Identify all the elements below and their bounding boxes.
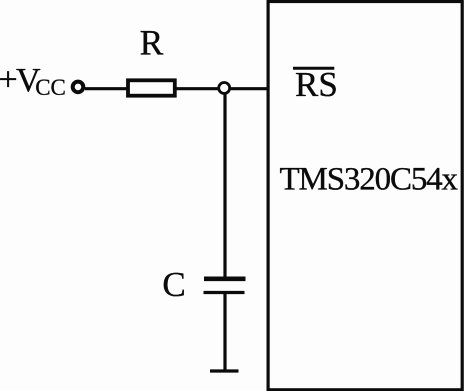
wire capacitor to ground [223, 294, 226, 370]
ground [210, 369, 239, 372]
junction node [219, 83, 230, 94]
resistor R [128, 80, 175, 95]
wire junction to IC RS pin [231, 87, 267, 90]
wire resistor to junction [177, 87, 219, 90]
svg-text:TMS320C54x: TMS320C54x [280, 162, 459, 198]
RS overline [293, 67, 334, 70]
svg-text:R: R [140, 22, 164, 62]
svg-text:C: C [162, 265, 185, 304]
IC U1 TMS320C54x [268, 2, 462, 390]
wire junction down to capacitor [223, 95, 226, 278]
svg-text:RS: RS [295, 65, 338, 104]
svg-text:CC: CC [35, 75, 66, 100]
capacitor C bottom plate [204, 291, 245, 294]
terminal +Vcc [73, 82, 84, 93]
capacitor C top plate [204, 276, 246, 281]
wire Vcc terminal to resistor [85, 87, 127, 90]
